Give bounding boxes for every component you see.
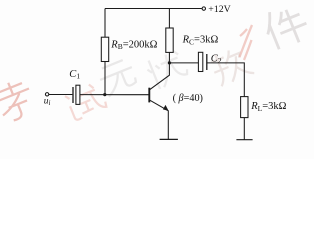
svg-text:ui: ui [44, 96, 51, 107]
capacitor C2 (thin plate) [206, 54, 208, 70]
watermark char 无 (gray, faint, middle) [96, 58, 138, 98]
node base junction dot [103, 93, 106, 96]
transistor Q1 emitter lead [150, 100, 169, 139]
transistor Q1 base bar [148, 88, 150, 103]
wire top rail [105, 8, 202, 10]
watermark char 考 (pink, bottom-left) [0, 76, 38, 123]
capacitor C1 (box plate) [76, 85, 80, 104]
resistor RL [241, 97, 248, 118]
watermark char 件 (gray, top-right) [260, 1, 312, 52]
watermark char 忧 (gray, faint, middle) [144, 48, 190, 90]
svg-text:C1: C1 [69, 69, 80, 81]
node collector junction dot [168, 61, 171, 64]
wire RL bottom vertical [243, 118, 245, 140]
wire C1 to base junction [80, 94, 149, 96]
watermark char 试 (pink, faint, behind C1 area) [64, 81, 107, 121]
svg-text:( β=40): ( β=40) [173, 93, 203, 104]
wire input to C1 [49, 94, 73, 96]
capacitor C1 (thin plate) [72, 87, 74, 103]
ground (emitter) [160, 138, 178, 140]
capacitor C2 (box plate) [198, 52, 202, 71]
resistor RB [101, 37, 108, 61]
svg-text:+12V: +12V [208, 4, 230, 15]
transistor Q1 emitter arrow [163, 105, 169, 111]
wire C2 to RL [207, 63, 245, 97]
watermark char 软 partial strokes (pink, upper right) [240, 25, 253, 60]
watermark char 软 (gray-pink, faint, middle-right) [208, 44, 254, 87]
terminal +12V circle [202, 7, 205, 10]
transistor Q1 collector lead [150, 63, 170, 90]
svg-text:RC=3kΩ: RC=3kΩ [182, 35, 219, 47]
svg-text:RL=3kΩ: RL=3kΩ [250, 101, 286, 113]
resistor RC [166, 28, 173, 52]
wire RB top vertical [104, 9, 106, 38]
wire RC top vertical [168, 9, 170, 29]
terminal input ui circle [45, 93, 48, 96]
wire collector to C2 [169, 62, 198, 64]
svg-text:C2: C2 [211, 53, 222, 65]
wire RC bottom vertical [168, 52, 170, 63]
wire RB bottom vertical [104, 62, 106, 95]
svg-text:RB=200kΩ: RB=200kΩ [110, 39, 157, 51]
ground (RL) [236, 139, 252, 141]
